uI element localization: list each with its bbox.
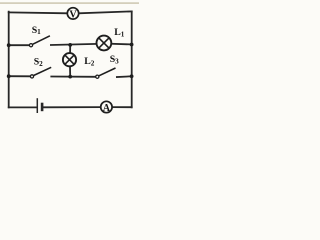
voltmeter U: circle (67, 8, 78, 19)
wire branch1 node to S1 (9, 44, 30, 46)
svg-text:A: A (103, 103, 111, 114)
wire battery to ammeter (44, 106, 101, 108)
decorative top rule (0, 2, 139, 4)
wire lamp L2 top stub (69, 45, 71, 54)
switch S1: pivot + lever (29, 36, 50, 47)
node dot branch1 / L2 top (68, 43, 72, 47)
wire ammeter to bottom-right corner (112, 106, 131, 108)
battery cell long plate (+) (36, 98, 38, 113)
svg-text:V: V (69, 9, 77, 20)
switch S3: pivot + lever (96, 68, 116, 78)
lamp L1: circle with X (97, 36, 112, 51)
node dot branch2 / L2 bottom (68, 75, 72, 79)
wire branch1 lamp L1 to right side (111, 43, 132, 46)
wire top-left segment (9, 11, 67, 14)
node dot left branch2 (7, 74, 11, 78)
wire branch2 S2 to S3 (51, 76, 95, 78)
background (0, 0, 139, 123)
switch S2: pivot + lever (30, 67, 51, 78)
battery cell short thick plate (-) (41, 103, 44, 112)
wire branch1 S1 to lamp L1 (51, 44, 97, 45)
wire top-right segment (79, 11, 132, 13)
node dot right branch2 (130, 74, 134, 78)
node dot left branch1 (7, 43, 11, 47)
wire branch2 S3 to right side (117, 75, 132, 78)
ammeter: circle (101, 101, 112, 112)
wire branch2 node to S2 (9, 75, 31, 77)
wire lamp L2 bottom stub (69, 67, 71, 77)
node dot right branch1 (130, 43, 134, 47)
wire left side (8, 12, 10, 108)
wire bottom-left to battery (9, 106, 37, 108)
wire right side (131, 11, 133, 107)
lamp L2: circle with X (63, 53, 76, 66)
